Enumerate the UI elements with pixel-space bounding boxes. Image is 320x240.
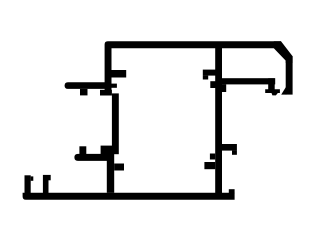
inner wall upper left tab xyxy=(203,70,216,76)
upper arm down tab xyxy=(80,89,88,96)
left wall upper right tab xyxy=(112,70,127,78)
upper left arm xyxy=(65,82,112,89)
inner wall mid right tab xyxy=(222,144,237,151)
top flange with upper left wall xyxy=(105,41,281,94)
left wall lower right tab xyxy=(114,164,124,171)
glazing channel left stub tick xyxy=(31,176,34,180)
chamber bottom web xyxy=(222,78,275,84)
left wall right stub xyxy=(112,84,117,88)
lower jog block xyxy=(101,146,113,155)
upper jog block xyxy=(100,90,112,96)
base right lip xyxy=(229,189,235,193)
lower left arm xyxy=(74,154,111,161)
glazing channel left stub xyxy=(25,175,31,193)
bottom base strip xyxy=(23,193,235,200)
middle left wall xyxy=(112,93,119,154)
lower left wall xyxy=(107,150,114,193)
inner wall mid left tab xyxy=(204,162,215,169)
chamfer corner xyxy=(274,41,293,63)
inner wall upper left tab leg xyxy=(203,76,208,80)
right outer wall xyxy=(286,56,293,95)
inner wall mid right tab leg xyxy=(232,151,237,155)
inner right wall xyxy=(215,48,222,193)
inner wall mid left stub xyxy=(210,154,215,160)
lower arm up tick xyxy=(79,146,86,154)
right wall bottom barb xyxy=(281,86,286,94)
inner wall right bump xyxy=(222,84,226,92)
glazing channel right stub tick xyxy=(49,175,51,180)
glazing channel right stub xyxy=(43,175,49,194)
screw port stem xyxy=(265,78,280,95)
inner wall left stub xyxy=(210,81,216,88)
